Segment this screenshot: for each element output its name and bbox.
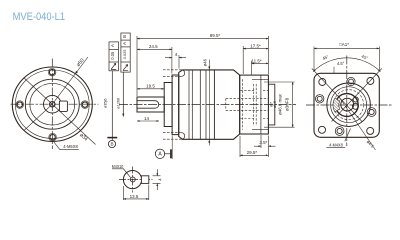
leader 4-M4X8 — [345, 129, 351, 142]
svg-text:ø35j6: ø35j6 — [104, 99, 108, 109]
input pilot boss — [268, 84, 274, 125]
pilot circle — [25, 79, 79, 129]
svg-text:11.5*: 11.5* — [251, 58, 261, 63]
left view diagonal spoke lower-right extended to label — [24, 78, 96, 145]
boss circle — [30, 83, 75, 125]
svg-text:ø12h6: ø12h6 — [116, 98, 120, 109]
diagonal construction line TR — [332, 69, 382, 122]
dim 13.5 ext lines — [122, 186, 124, 200]
key block — [141, 176, 148, 184]
center tap hole — [130, 177, 135, 182]
dashed bolt circle — [334, 90, 364, 120]
body seam line 3 — [205, 70, 207, 139]
svg-text:0.05: 0.05 — [110, 51, 115, 60]
hole top — [49, 70, 54, 75]
ext line plate rear for dim4 — [178, 55, 180, 69]
dim 13.5 line — [123, 198, 148, 200]
leader M4X10 — [112, 169, 131, 178]
svg-text:MVE-040-L1: MVE-040-L1 — [13, 11, 66, 23]
hidden screw top — [163, 70, 182, 77]
diagonal construction line TL — [312, 69, 362, 122]
dim 14 — [137, 120, 159, 122]
clamp screw circle upper — [353, 97, 358, 102]
shaft keyway slot — [137, 101, 159, 109]
left view horizontal centerline — [11, 103, 99, 105]
inner circle 2 — [331, 87, 367, 123]
svg-text:3.5*: 3.5* — [259, 140, 267, 145]
svg-text:4.5°: 4.5° — [337, 61, 345, 66]
datum B tick — [107, 137, 117, 139]
runout symbol frame1 — [111, 63, 116, 69]
big body circle — [327, 83, 371, 127]
svg-text:B: B — [110, 142, 113, 147]
svg-text:14: 14 — [144, 116, 150, 121]
datum B circle — [108, 140, 115, 147]
body seam line 1 — [188, 70, 190, 139]
leader dia4.5 — [338, 96, 376, 151]
hole left — [17, 102, 22, 107]
svg-text:□A1*: □A1* — [339, 42, 349, 47]
svg-text:4-M5X8: 4-M5X8 — [63, 144, 78, 149]
underline 4-M4X8 — [327, 146, 346, 148]
bolt rim circle — [15, 70, 89, 138]
center bore circle — [50, 102, 55, 107]
ext line 17.5 left — [242, 46, 244, 74]
tolerance frame 2 — [121, 33, 130, 72]
svg-text:89.5*: 89.5* — [210, 33, 221, 38]
dim line 11.5 — [252, 62, 269, 64]
datum A attach line — [165, 153, 171, 155]
dim A ext right — [378, 47, 380, 72]
corner hole BR — [367, 127, 374, 134]
tolerance frame texts — [104, 35, 163, 158]
body seam line 4 — [213, 70, 215, 139]
svg-text:17.5*: 17.5* — [250, 43, 261, 48]
front boss — [164, 83, 172, 127]
svg-text:A: A — [122, 42, 127, 45]
ext line for 4.5 deg — [333, 67, 335, 74]
ext line shaft end — [136, 36, 138, 96]
dim 29.5 line — [240, 154, 268, 156]
dim 19.5 — [137, 88, 164, 90]
rear inner line top — [252, 78, 268, 80]
square flange outline — [314, 73, 379, 137]
dim line 4 — [165, 57, 172, 59]
hidden screw cap top — [182, 70, 185, 77]
mount hole ring left — [316, 95, 324, 103]
corner hole BL — [319, 126, 326, 133]
svg-text:B: B — [122, 35, 127, 38]
body seam line 2 — [199, 70, 201, 139]
tolerance frame 1 — [109, 42, 118, 71]
left view diagonal spoke upper-right extended to label — [24, 57, 88, 131]
svg-text:ø30F8: ø30F8 — [285, 97, 290, 111]
dim line square A — [314, 47, 379, 49]
clamp slot hatched sector — [333, 98, 340, 112]
dim 29.5 ext line left — [239, 136, 241, 157]
shaft section circle — [123, 171, 141, 189]
svg-text:ø9.5: ø9.5 — [273, 101, 277, 108]
right view vertical centerline — [346, 56, 348, 147]
svg-text:A: A — [110, 44, 115, 47]
dim line dia46.6 vertical — [292, 82, 294, 127]
dim line 89.5 — [137, 38, 268, 40]
dim 4 ticks — [153, 175, 161, 177]
dim A ext left — [313, 47, 315, 72]
ext line flange front — [171, 47, 173, 74]
datum A tick — [170, 149, 172, 158]
dim line 17.5 — [243, 48, 268, 50]
svg-text:13.5: 13.5 — [130, 194, 139, 199]
corner hole TR — [367, 78, 374, 85]
detail horizontal centerline — [119, 179, 153, 181]
hole right — [82, 102, 87, 107]
gear housing body — [179, 70, 240, 139]
leader for 4-M5X8 — [54, 142, 79, 150]
left view vertical centerline — [51, 59, 53, 150]
output shaft outline — [137, 97, 164, 112]
outer flange circle — [12, 67, 92, 141]
mount hole ring right — [367, 108, 376, 117]
hole bottom — [50, 135, 55, 140]
hidden screw cap bottom — [182, 133, 185, 140]
input shaft bore — [341, 98, 354, 111]
clamp screw circle lower — [352, 103, 358, 109]
output flange plate — [172, 75, 179, 135]
right view texts — [322, 42, 376, 149]
dim 3.5 ext lines — [260, 135, 262, 148]
right side ext lines — [264, 81, 295, 83]
clamp collar bold circle — [335, 94, 358, 117]
runout symbol frame2 — [123, 65, 128, 71]
key rectangle on hub — [59, 101, 67, 111]
datum A circle — [155, 149, 164, 158]
plate face extension down — [171, 136, 173, 160]
right view horizontal centerline — [306, 104, 392, 106]
hidden screw bottom — [163, 133, 182, 140]
mount hole ring bottom — [335, 127, 344, 136]
dia46 dimension line vertical through body — [208, 60, 210, 146]
dim 3.5 arrows — [254, 145, 261, 147]
frame2 leader down — [122, 72, 124, 117]
mount hole ring top — [347, 77, 355, 85]
ext line 11.5 left — [251, 61, 253, 75]
svg-text:29.5*: 29.5* — [247, 150, 258, 155]
dim line 24.5 — [137, 48, 172, 50]
detail vertical centerline — [132, 167, 134, 193]
middle view centerline — [119, 104, 296, 106]
svg-text:4-M4X8: 4-M4X8 — [329, 142, 343, 147]
svg-text:24.5: 24.5 — [149, 44, 158, 49]
svg-text:0.025: 0.025 — [122, 50, 127, 60]
rear inner line bottom — [252, 129, 268, 131]
frame1 leader down to datum B — [111, 71, 113, 141]
dim texts middle view — [144, 33, 290, 155]
svg-text:19.5: 19.5 — [146, 84, 155, 89]
svg-text:ø46.6 max: ø46.6 max — [277, 93, 282, 115]
rear input section — [240, 75, 269, 134]
hidden bore lines — [226, 79, 269, 129]
ext line input face — [267, 36, 269, 74]
45 deg dimension arc — [313, 58, 380, 72]
hub circle — [44, 95, 62, 113]
dim 4 line vertical — [156, 169, 158, 176]
svg-text:ø46: ø46 — [203, 58, 208, 66]
corner hole TL — [319, 79, 326, 86]
input flange face line — [260, 75, 262, 134]
svg-text:M4X10: M4X10 — [112, 164, 124, 169]
